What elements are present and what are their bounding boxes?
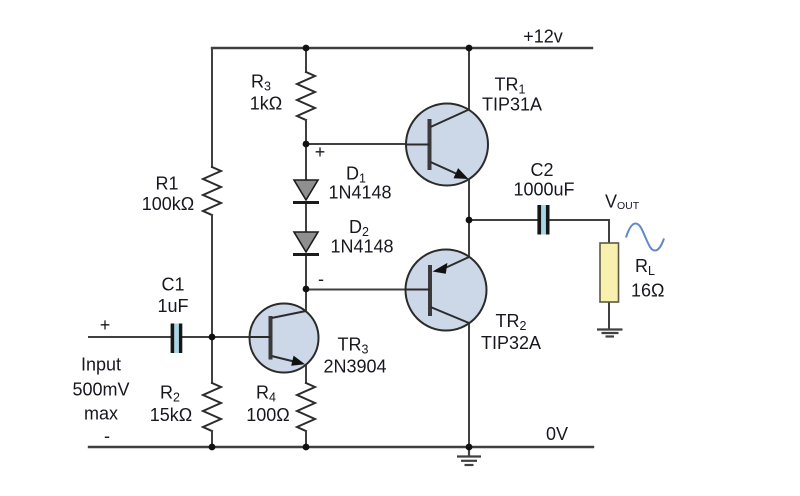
wire TR1 collector to rail (468, 48, 470, 110)
wire node - to TR2 base (306, 289, 430, 291)
svg-text:16Ω: 16Ω (631, 281, 664, 301)
wire output node to C2 (469, 219, 537, 221)
wire node - down to TR3 collector (305, 289, 307, 312)
resistor R2 (203, 383, 221, 431)
wire R3 branch top lead (305, 48, 307, 72)
wire left vertical top (rail to R1) (211, 48, 213, 167)
node input / R2 (209, 334, 216, 341)
transistor TR1 TIP31A (NPN) (406, 104, 488, 186)
svg-text:+: + (100, 315, 111, 335)
wire output corner down to RL (608, 220, 610, 243)
wire D1-D2 link (305, 203, 307, 232)
wire left vertical mid (R1 to input node) (211, 215, 213, 383)
wire R4 to 0V rail (305, 431, 307, 447)
svg-text:-: - (318, 269, 324, 289)
resistor R4 (297, 383, 315, 431)
wire D2 to node - (305, 255, 307, 289)
svg-text:1uF: 1uF (157, 296, 188, 316)
wire +12v top rail (212, 47, 592, 49)
ground symbol at 0V rail centre (457, 447, 481, 465)
wire output node to TR2 emitter (468, 220, 470, 257)
resistor R1 (203, 167, 221, 215)
svg-text:500mV: 500mV (72, 380, 129, 400)
svg-text:+12v: +12v (523, 27, 563, 47)
capacitor C2 (537, 205, 549, 235)
wire node + to TR1 base (306, 143, 430, 145)
svg-text:15kΩ: 15kΩ (150, 405, 192, 425)
svg-text:TIP32A: TIP32A (481, 333, 541, 353)
wire TR1 emitter to output node (468, 179, 470, 220)
svg-text:R1: R1 (155, 174, 178, 194)
sine wave icon (626, 224, 664, 251)
svg-text:1N4148: 1N4148 (330, 237, 393, 257)
svg-text:C1: C1 (161, 275, 184, 295)
svg-text:1000uF: 1000uF (513, 180, 574, 200)
node + (303, 141, 310, 148)
svg-text:1N4148: 1N4148 (328, 183, 391, 203)
wire input left segment (89, 336, 170, 338)
svg-text:2N3904: 2N3904 (323, 357, 386, 377)
svg-text:1kΩ: 1kΩ (250, 94, 282, 114)
svg-text:-: - (104, 426, 110, 446)
svg-text:TIP31A: TIP31A (482, 95, 542, 115)
wire 0V bottom rail (89, 446, 593, 448)
svg-text:C2: C2 (530, 160, 553, 180)
wire R3 bottom lead to node + (305, 120, 307, 144)
node - (303, 286, 310, 293)
wire left vertical bottom (R2 to 0V rail) (211, 431, 213, 447)
node 0V / TR2 (466, 444, 473, 451)
resistor RL (load, yellow box) (600, 243, 619, 302)
resistor R3 (297, 72, 315, 120)
wire D1 top lead (305, 144, 307, 180)
wire C1 to TR3 base (183, 336, 271, 338)
svg-text:Input: Input (81, 355, 121, 375)
capacitor C1 (171, 324, 183, 354)
wire TR2 collector to 0V rail (468, 323, 470, 447)
node dot top rail / TR1 collector (466, 45, 473, 52)
diode D1 1N4148 (293, 180, 319, 203)
node 0V / R2 (209, 444, 216, 451)
node dot top rail / R3 (303, 45, 310, 52)
svg-text:max: max (84, 404, 118, 424)
wire TR3 emitter to R4 (305, 364, 307, 383)
svg-text:0V: 0V (546, 424, 568, 444)
node 0V / R4 (303, 444, 310, 451)
svg-text:+: + (315, 142, 326, 162)
wire RL bottom lead to ground (608, 302, 610, 328)
transistor TR3 2N3904 (NPN) (250, 304, 319, 373)
ground symbol under RL (597, 330, 623, 337)
wire C2 to output corner (550, 219, 610, 221)
diode D2 1N4148 (293, 232, 319, 255)
svg-text:100Ω: 100Ω (246, 405, 290, 425)
node output (466, 217, 473, 224)
transistor TR2 TIP32A (PNP) (406, 250, 487, 331)
svg-text:100kΩ: 100kΩ (142, 194, 195, 214)
